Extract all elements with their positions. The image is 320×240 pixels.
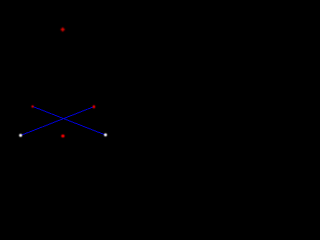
node C: red dot, upper-right of X xyxy=(93,105,96,108)
node D: white dot, lower-left of X xyxy=(19,134,22,137)
node F: red dot, bottom center xyxy=(61,135,64,138)
node A: red plus marker, top center xyxy=(61,28,65,32)
wire: blue edge from node B (left red) to node E (right white) xyxy=(33,107,105,135)
node E: white dot, lower-right of X xyxy=(104,133,107,136)
node A halo xyxy=(61,27,65,31)
wire: blue edge from node D (left white) to node C (right red) xyxy=(21,107,93,135)
node B: red dot, upper-left of X xyxy=(31,105,33,107)
